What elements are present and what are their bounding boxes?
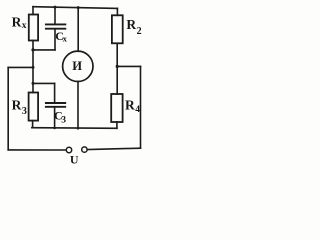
svg-text:R: R xyxy=(126,17,136,32)
wire: bottom right horizontal to terminal xyxy=(88,148,141,149)
wire: top node A horizontal xyxy=(33,7,117,9)
wire: R2 bottom lead / right branch spine (node C) xyxy=(116,43,118,94)
capacitor Cx xyxy=(46,24,65,28)
label R4 xyxy=(125,97,140,115)
indicator U1 (И) circle xyxy=(63,51,93,81)
terminal: source left xyxy=(66,147,71,152)
label Cx xyxy=(55,29,67,44)
svg-text:2: 2 xyxy=(137,26,142,37)
resistor R4 xyxy=(111,94,122,122)
svg-text:U: U xyxy=(70,153,79,167)
wire: right outer horizontal (node C to source) xyxy=(117,65,140,67)
capacitor Cx bottom lead xyxy=(54,30,56,50)
wire: left outer vertical xyxy=(7,67,9,149)
label R2 xyxy=(126,17,141,37)
svg-text:R: R xyxy=(125,97,135,112)
terminal: source right xyxy=(82,147,87,152)
wire: right outer vertical xyxy=(140,66,142,148)
svg-text:3: 3 xyxy=(61,115,66,125)
junction: indicator on top wire xyxy=(77,6,80,9)
svg-text:R: R xyxy=(12,14,22,29)
junction: indicator bottom on bottom wire xyxy=(77,127,80,130)
junction: Cx bottom on left spine xyxy=(31,48,34,51)
svg-text:R: R xyxy=(12,97,22,112)
label Rx xyxy=(12,14,27,31)
junction: Cx on top wire xyxy=(54,6,57,9)
wire: Rx bottom lead / left branch spine (node D) xyxy=(32,41,34,93)
svg-text:3: 3 xyxy=(22,106,27,117)
capacitor C3 xyxy=(46,103,65,107)
wire: R2 top lead xyxy=(116,8,118,15)
wire: bottom node B horizontal xyxy=(32,127,117,130)
wire: left outer horizontal (node D to source) xyxy=(8,66,33,68)
label C3 xyxy=(54,109,66,126)
resistor R2 xyxy=(112,15,123,43)
label R3 xyxy=(12,97,27,117)
junction: left outer on left spine xyxy=(32,66,35,69)
svg-text:И: И xyxy=(72,59,82,73)
resistor R3 xyxy=(29,93,38,121)
svg-text:x: x xyxy=(63,33,68,43)
junction: C3 top on left spine xyxy=(32,82,35,85)
junction: C3 bottom on bottom wire xyxy=(53,127,56,130)
wire: C3 top to left spine xyxy=(33,82,55,84)
resistor Rx xyxy=(29,15,38,41)
wire: indicator top lead xyxy=(77,8,79,52)
capacitor Cx top lead xyxy=(54,7,56,23)
wire: bottom left horizontal to terminal xyxy=(8,149,66,151)
wire: Cx bottom to left spine xyxy=(33,49,55,51)
wire: R4 bottom lead xyxy=(116,122,118,128)
wire: R3 bottom lead xyxy=(32,121,34,128)
capacitor C3 top lead xyxy=(54,83,56,102)
capacitor C3 bottom lead xyxy=(54,108,56,128)
junction: right outer on right spine xyxy=(116,65,119,68)
svg-text:4: 4 xyxy=(135,105,140,115)
wire: Rx top lead xyxy=(32,7,34,15)
svg-text:x: x xyxy=(22,21,27,31)
wire: indicator bottom lead xyxy=(77,82,79,129)
